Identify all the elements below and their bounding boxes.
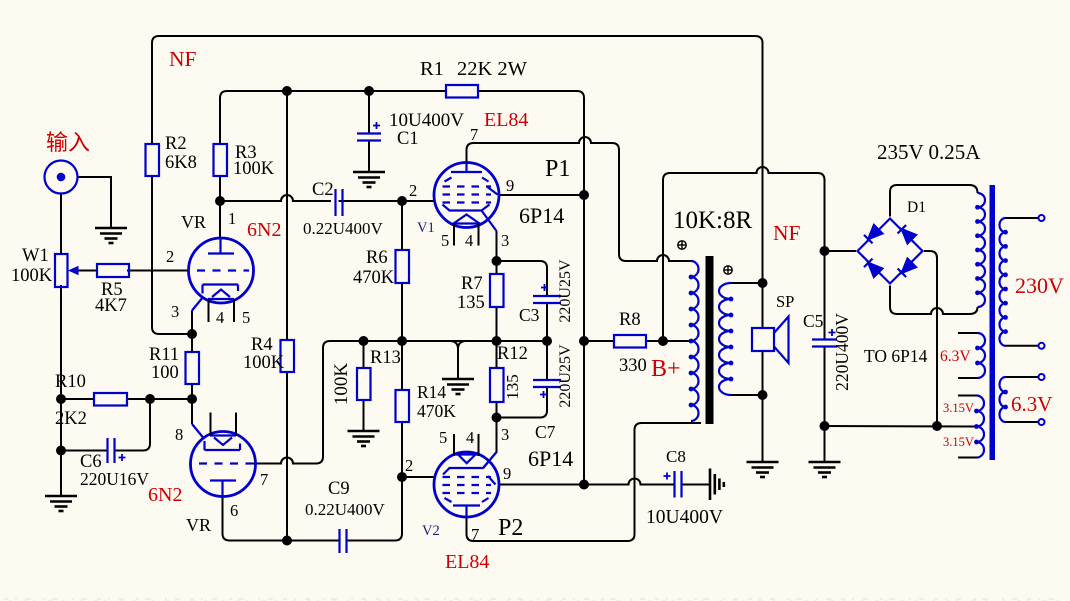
junction R6 grid tap — [397, 196, 407, 206]
terminal circle 230V top — [1039, 215, 1045, 221]
svg-text:3: 3 — [501, 231, 509, 250]
svg-text:7: 7 — [260, 470, 268, 489]
bridge rectifier D1 diamond — [858, 219, 923, 284]
wire cathode rail left end down to lower 6N2 grid pin 7 wire — [250, 341, 330, 464]
svg-text:100K: 100K — [331, 363, 352, 406]
wire 3.15V winding bottom stub — [958, 457, 977, 459]
wire grid node to pin 8 of lower 6N2 — [191, 399, 193, 424]
wire lower 6N2 plate pin 6 down and right to plate node — [223, 497, 288, 541]
tube V1 cathode tail to pin 3 — [482, 211, 497, 232]
svg-text:6.3V: 6.3V — [940, 348, 971, 365]
wire node A to cathode pin 3 of upper 6N2 — [191, 311, 193, 335]
wire R14 top lead — [401, 341, 403, 390]
svg-text:R13: R13 — [370, 348, 401, 368]
junction W1 line R10 — [56, 394, 66, 404]
wire V2 grid node to pin 2 — [402, 476, 436, 478]
svg-text:6K8: 6K8 — [165, 153, 197, 173]
wire R2 bottom to node A junction — [152, 176, 192, 334]
tube V2 heater pins 5 and 4 stubs — [454, 434, 479, 456]
junction V1 cathode pin 3 — [492, 256, 502, 266]
svg-text:D1: D1 — [907, 199, 926, 216]
svg-text:R14: R14 — [417, 382, 446, 402]
power transformer right 6.3V winding — [1000, 377, 1006, 422]
ground under C5 — [809, 462, 841, 477]
junction top rail at C1 — [364, 86, 374, 96]
svg-text:C5: C5 — [803, 311, 824, 331]
wire R10 right to grid node — [127, 398, 192, 400]
svg-text:6.3V: 6.3V — [1011, 392, 1052, 416]
wire left 6.3V winding bottom stub — [958, 377, 978, 379]
junction top rail at R4 line — [282, 86, 292, 96]
tube V1 heater pins 5 and 4 stubs — [454, 224, 479, 246]
junction pin1 node — [215, 196, 225, 206]
tube V2 cathode and heater — [443, 455, 483, 475]
svg-text:R7: R7 — [461, 274, 483, 294]
svg-text:5: 5 — [439, 428, 447, 447]
tube lower 6N2 grid dashed — [199, 462, 251, 464]
capacitor C6 — [108, 438, 126, 463]
wire R12 bottom to V2 cathode node — [496, 402, 498, 418]
wire R7 top lead — [496, 261, 498, 274]
winding cusp dots right 6.3V winding — [1003, 390, 1008, 410]
svg-text:P1: P1 — [545, 156, 570, 182]
svg-text:6: 6 — [230, 501, 238, 520]
junction rectifier C5 node — [820, 246, 830, 256]
wire left 6.3V winding top stub — [958, 332, 978, 334]
junction node A feedback — [187, 329, 197, 339]
ground under C1 — [353, 172, 385, 187]
svg-text:6P14: 6P14 — [519, 203, 564, 228]
svg-text:R12: R12 — [497, 344, 528, 364]
wire C1 top lead — [368, 91, 370, 133]
svg-text:470K: 470K — [417, 401, 456, 421]
wire R3 bottom to pin1 node — [219, 176, 221, 201]
svg-text:7: 7 — [471, 525, 479, 544]
wire 230V primary bottom terminal — [1006, 345, 1039, 347]
svg-text:2: 2 — [409, 181, 417, 200]
svg-text:TO 6P14: TO 6P14 — [864, 346, 928, 366]
svg-text:2K2: 2K2 — [55, 409, 87, 429]
wire node A to R11 top — [191, 334, 193, 352]
wire V2 cathode node to C7 bottom — [497, 387, 548, 418]
tube upper 6N2 heater pins 4 5 stubs — [209, 299, 235, 322]
wire V2 grid node down to C9 right plate — [347, 477, 402, 541]
svg-text:135: 135 — [457, 293, 485, 313]
svg-text:R1: R1 — [420, 58, 444, 80]
svg-text:EL84: EL84 — [484, 109, 528, 131]
resistor R7 — [490, 274, 504, 307]
svg-text:220U25V: 220U25V — [557, 259, 574, 323]
ground under R13 — [348, 431, 380, 446]
junction lower 6N2 plate node — [282, 536, 292, 546]
wire W1 bottom to cathode node and ground — [60, 285, 62, 496]
wire V2 cathode node down to pin 3 — [483, 418, 497, 469]
wire V1 plate pin 7 over to OPT primary top with hops — [467, 137, 692, 261]
wire R12 top from cathode rail — [496, 341, 498, 368]
tube V1 screen to pin 9 link — [488, 187, 498, 195]
wire R8 left lead from screen rail — [584, 340, 614, 342]
svg-text:6N2: 6N2 — [247, 219, 281, 241]
phase dot OPT primary — [678, 241, 686, 249]
wire R8 right lead to B+ node — [646, 340, 663, 342]
junction lower 6N2 grid node — [187, 394, 197, 404]
capacitor C9 — [340, 529, 347, 553]
svg-text:10U400V: 10U400V — [646, 507, 723, 528]
tube lower 6N2 plate — [210, 481, 236, 498]
terminal circle right 6.3V top — [1039, 374, 1045, 380]
wire R13 top lead — [363, 341, 365, 368]
OPT primary winding — [691, 261, 699, 421]
resistor R6 — [396, 250, 410, 283]
potentiometer W1 — [55, 254, 97, 287]
wire C8 right plate to ground bars — [682, 484, 709, 486]
wire R5 right lead to grid pin 2 of upper 6N2 — [127, 270, 189, 272]
svg-text:100K: 100K — [11, 266, 53, 286]
terminal circle 230V bottom — [1039, 343, 1045, 349]
wire secondary bottom to ground — [762, 395, 764, 462]
svg-text:SP: SP — [776, 292, 794, 311]
wire input jack to ground stub — [78, 177, 112, 228]
svg-text:V2: V2 — [422, 523, 440, 539]
wire R1 right to screen rail riser x584 — [478, 91, 584, 485]
svg-text:220U25V: 220U25V — [557, 344, 574, 408]
svg-text:10K:8R: 10K:8R — [673, 207, 753, 234]
wire C2 right plate to V1 grid with R6 tap — [339, 200, 436, 202]
diode D1d bottom right — [898, 259, 916, 277]
svg-text:0.22U400V: 0.22U400V — [303, 219, 384, 238]
wire C6 right plate up to R10 right node — [115, 399, 151, 451]
svg-text:C8: C8 — [666, 447, 686, 466]
terminal circle right 6.3V bottom — [1039, 419, 1045, 425]
tube V1 beam plates — [445, 178, 489, 182]
svg-text:VR: VR — [186, 515, 211, 535]
tube lower 6N2 cathode box and heater — [205, 436, 241, 451]
svg-text:5: 5 — [441, 231, 449, 250]
svg-text:R11: R11 — [149, 345, 179, 365]
junction R10 right C6 — [145, 394, 155, 404]
svg-text:330: 330 — [619, 356, 647, 376]
wire C5 node to bridge left vertex — [825, 250, 857, 252]
svg-text:R4: R4 — [251, 335, 273, 355]
wire B+ riser from rectifier feed — [663, 173, 670, 341]
wire rectifier output to C5 top with hop over NF line — [670, 167, 825, 251]
capacitor C1 — [357, 122, 381, 141]
winding cusp dots 235V winding — [975, 205, 980, 295]
wire x287 line from top rail through R4 down to plate node, hops by others — [286, 91, 288, 340]
power transformer left 6.3V winding — [978, 333, 986, 378]
power transformer 235V winding — [978, 193, 986, 307]
svg-text:8: 8 — [175, 425, 183, 444]
resistor R3 — [214, 144, 228, 176]
junction cathode rail R7 R12 — [492, 336, 502, 346]
ground C8 sideways bars — [710, 469, 724, 501]
svg-text:220U400V: 220U400V — [832, 313, 852, 391]
junction cathode rail R6 R14 — [397, 336, 407, 346]
tube V2 cathode tail to pin 3 — [483, 452, 497, 468]
svg-text:R2: R2 — [165, 134, 187, 154]
wire R11 bottom to grid node of lower 6N2 — [191, 384, 193, 399]
wire V2 pin 9 screen wire to C8 with hop over plate riser — [499, 479, 674, 485]
svg-text:NF: NF — [773, 221, 801, 245]
OPT core — [706, 256, 714, 424]
svg-text:4: 4 — [465, 231, 473, 250]
wire bridge top vertex to 235V winding top — [890, 185, 978, 217]
wire cathode node to R10 left — [61, 398, 94, 400]
svg-text:3: 3 — [501, 425, 509, 444]
wire V2 plate pin 7 loop to OPT primary bottom — [467, 423, 702, 541]
tube V2 grids dashed — [443, 477, 492, 493]
tube V2 EL84 envelope — [434, 452, 499, 517]
svg-text:1: 1 — [228, 209, 236, 228]
svg-text:100: 100 — [151, 363, 179, 383]
junction heater center tap rail — [932, 421, 942, 431]
junction cathode rail R13 — [359, 336, 369, 346]
winding cusp dots 3.15V winding — [974, 409, 979, 445]
svg-text:C3: C3 — [519, 305, 540, 325]
wire bridge bottom vertex to 235V winding bottom with hop — [890, 286, 978, 315]
wire C3 bottom to cathode rail — [546, 303, 548, 341]
resistor R8 — [614, 335, 646, 348]
junction secondary bottom — [758, 390, 768, 400]
svg-text:3: 3 — [171, 302, 179, 321]
wire 230V primary top terminal — [1006, 217, 1039, 219]
winding cusp dots left 6.3V winding — [975, 346, 980, 366]
capacitor C5 — [812, 329, 837, 347]
resistor R11 — [186, 352, 200, 384]
resistor R14 — [396, 390, 410, 422]
wire V1 pin 9 screen to x584 rail — [499, 194, 585, 196]
junction V2 pin 9 screen rail — [579, 480, 589, 490]
svg-text:135: 135 — [503, 374, 522, 400]
svg-text:C2: C2 — [312, 180, 334, 200]
wire B+ node to OPT primary center tap — [663, 340, 691, 342]
svg-text:7: 7 — [470, 125, 478, 144]
svg-text:EL84: EL84 — [445, 551, 489, 573]
input jack connector — [45, 161, 78, 194]
wire cathode rail ground tap — [450, 341, 466, 379]
junction V2 cathode node — [492, 413, 502, 423]
svg-text:4: 4 — [216, 308, 224, 327]
svg-text:3.15V: 3.15V — [943, 401, 974, 415]
tube V1 grids dashed — [443, 187, 492, 203]
speaker SP — [752, 317, 789, 364]
svg-text:10U400V: 10U400V — [389, 110, 464, 131]
wire bridge right vertex down to heater rail — [924, 251, 937, 426]
tube upper 6N2 cathode tail — [192, 297, 204, 311]
wire 3.15V winding top stub — [958, 395, 977, 397]
junction V1 pin 9 screen — [579, 190, 589, 200]
power transformer 3.15V 3.15V winding — [977, 396, 985, 458]
tube VR upper 6N2 envelope — [189, 238, 254, 303]
diode D1b top right — [898, 225, 916, 243]
svg-text:4K7: 4K7 — [95, 296, 127, 316]
svg-text:VR: VR — [181, 212, 206, 232]
wire C6 left plate to W1 line — [61, 450, 107, 452]
wire secondary bottom lead — [731, 394, 763, 396]
svg-text:0.22U400V: 0.22U400V — [305, 500, 386, 519]
svg-text:5: 5 — [242, 308, 250, 327]
wire C9 left plate to plate node of lower 6N2 — [287, 540, 340, 542]
resistor R4 — [281, 340, 295, 372]
svg-text:230V: 230V — [1015, 273, 1064, 298]
diode D1a top left — [864, 225, 882, 243]
wire C5 node to ground — [824, 426, 826, 462]
wire V1 cathode pin 3 down to junction — [496, 231, 498, 261]
phase dot OPT secondary — [724, 266, 732, 274]
junction W1 line C6 — [56, 446, 66, 456]
wire heater ground rail — [825, 425, 977, 428]
svg-text:470K: 470K — [353, 268, 395, 288]
resistor R10 — [94, 393, 127, 406]
svg-text:C7: C7 — [535, 422, 556, 442]
wire C5 top lead — [824, 251, 826, 339]
wire R6 top riser — [401, 201, 403, 250]
junction B+ node — [658, 336, 668, 346]
junction V2 grid node — [397, 472, 407, 482]
bottom edge cropped text artifacts — [4, 599, 1066, 601]
svg-text:6N2: 6N2 — [148, 484, 182, 506]
svg-text:R8: R8 — [619, 310, 641, 330]
ground input jack — [95, 228, 127, 243]
ground cathode rail — [442, 379, 474, 394]
capacitor C2 — [336, 189, 343, 216]
ground speaker line — [747, 462, 779, 477]
svg-text:9: 9 — [503, 464, 511, 483]
resistor R12 — [490, 368, 504, 402]
wire C5 bottom lead to ground rail node — [824, 347, 826, 427]
power transformer 230V winding — [1000, 218, 1006, 346]
svg-text:W1: W1 — [22, 246, 49, 266]
winding cusp dots 230V winding — [1003, 230, 1008, 334]
svg-text:3.15V: 3.15V — [943, 435, 974, 449]
junction screen rail R8 tap — [579, 336, 589, 346]
wire right 6.3V top terminal — [1006, 376, 1039, 378]
wire R6 bottom to cathode rail — [401, 283, 403, 341]
tube V1 plate — [451, 163, 482, 172]
winding cusp dots OPT primary — [689, 275, 694, 408]
wire R13 bottom to ground — [363, 400, 365, 431]
svg-text:9: 9 — [506, 176, 514, 195]
tube lower 6N2 cathode tail — [192, 424, 204, 438]
wire R3 top riser — [219, 98, 221, 144]
tube V2 beam plates — [445, 498, 489, 502]
tube VR lower 6N2 envelope — [191, 432, 256, 497]
svg-text:2: 2 — [405, 456, 413, 475]
wire R14 bottom to V2 grid node — [401, 422, 403, 477]
svg-text:6P14: 6P14 — [528, 446, 573, 471]
wire input jack down to W1 — [60, 194, 62, 255]
tube upper 6N2 plate — [208, 239, 234, 254]
tube lower 6N2 heater stubs — [211, 413, 237, 436]
svg-text:100K: 100K — [233, 159, 275, 179]
ground left bottom — [45, 496, 77, 511]
resistor R5 — [97, 264, 129, 277]
wire C7 top to cathode rail — [546, 341, 548, 380]
svg-text:C1: C1 — [397, 129, 419, 149]
svg-text:220U16V: 220U16V — [80, 469, 149, 489]
capacitor C7 — [533, 380, 561, 398]
wire pin1 node down to plate of upper 6N2 — [219, 201, 221, 239]
resistor R1 — [446, 85, 478, 98]
svg-text:输入: 输入 — [46, 130, 90, 155]
wire top B+ rail y91 from R3 top to R1 — [220, 91, 446, 98]
svg-text:P2: P2 — [498, 515, 523, 541]
svg-text:R6: R6 — [366, 248, 388, 268]
svg-text:C9: C9 — [328, 479, 350, 499]
resistor R13 — [357, 368, 371, 400]
winding cusp dots OPT secondary — [729, 297, 734, 382]
tube V2 plate — [453, 506, 480, 517]
svg-text:235V 0.25A: 235V 0.25A — [877, 140, 981, 164]
wire cathode rail y341 — [330, 340, 547, 342]
junction cathode rail C3 C7 — [542, 336, 552, 346]
capacitor C3 — [533, 284, 561, 303]
svg-text:22K 2W: 22K 2W — [457, 58, 528, 80]
svg-text:4: 4 — [466, 428, 474, 447]
tube V1 EL84 envelope — [434, 163, 499, 228]
power transformer core — [990, 185, 996, 460]
wire speaker bottom to secondary bottom — [762, 351, 764, 395]
OPT secondary winding — [719, 283, 731, 395]
svg-text:B+: B+ — [651, 356, 681, 382]
wire R4 bottom to plate node — [286, 372, 288, 541]
tube V1 cathode and heater — [443, 205, 490, 224]
wire C2 coupling from pin1 node with hop over R4 line — [220, 195, 331, 201]
junction C5 ground rail — [820, 421, 830, 431]
tube upper 6N2 cathode box and heater — [203, 285, 239, 300]
wire pin3 node to C3 top — [497, 261, 548, 296]
svg-text:2: 2 — [166, 247, 174, 266]
diode D1c bottom left — [864, 259, 882, 277]
svg-text:V1: V1 — [417, 220, 435, 236]
tube upper 6N2 grid dashed — [197, 269, 249, 271]
wire C1 bottom lead to ground — [368, 140, 370, 172]
wire right 6.3V bottom terminal — [1006, 421, 1039, 423]
capacitor C8 — [664, 471, 682, 498]
wire secondary top lead — [731, 282, 763, 284]
wire NF top loop from R2 top to right side — [152, 36, 763, 283]
svg-text:R10: R10 — [55, 372, 86, 392]
svg-text:100K: 100K — [243, 353, 285, 373]
tube V2 screen to pin 9 link — [488, 476, 496, 485]
wire R7 bottom to cathode rail — [496, 307, 498, 341]
junction secondary top NF tap — [758, 278, 768, 288]
svg-text:NF: NF — [169, 47, 197, 71]
wire speaker line secondary top to NF — [762, 283, 764, 328]
resistor R2 — [146, 144, 160, 176]
